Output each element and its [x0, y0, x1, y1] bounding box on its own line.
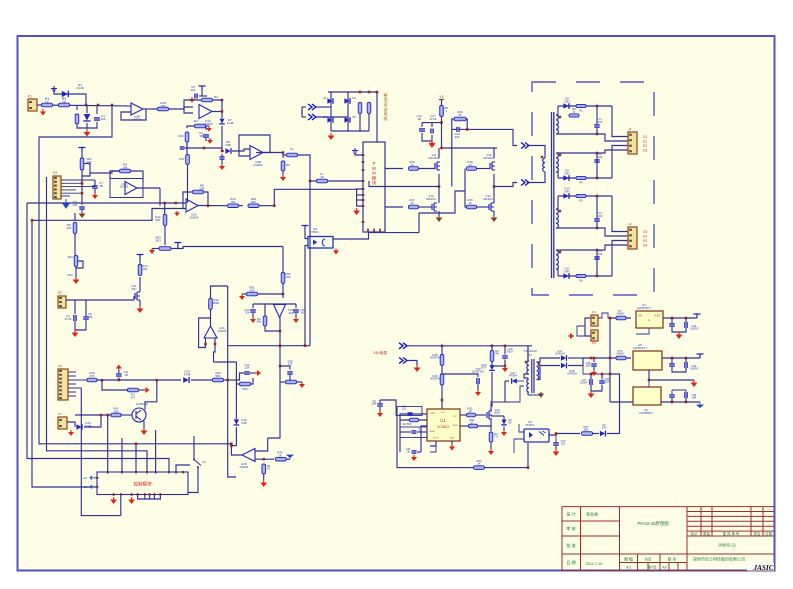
wire R22 down	[282, 171, 284, 175]
wire c32 up	[685, 318, 687, 322]
power arrow C11	[219, 164, 225, 170]
wire D16 down	[231, 427, 236, 446]
svg-text:签名: 签名	[754, 531, 761, 536]
wire bridge top rail	[328, 91, 377, 93]
label C28	[580, 378, 588, 385]
svg-text:10: 10	[469, 409, 472, 413]
svg-text:1B: 1B	[124, 373, 128, 377]
capacitor C21	[116, 374, 122, 376]
label R30	[213, 298, 220, 305]
junction sec out	[590, 357, 593, 360]
wire D10 cell cap stub2	[596, 222, 598, 229]
wire bridge out down	[376, 92, 378, 142]
title block bottom rows	[620, 562, 688, 564]
label R19	[457, 110, 463, 117]
power bar U5	[302, 226, 309, 230]
wire V14 gate	[133, 296, 135, 300]
label R26	[285, 272, 291, 279]
svg-text:R6: R6	[579, 279, 583, 283]
junction U2D out	[230, 443, 233, 446]
svg-text:J2: J2	[628, 222, 632, 226]
wire R47 up	[491, 346, 493, 351]
wire VR3 left	[152, 248, 159, 250]
wire D8 cell rail	[558, 105, 612, 107]
off-page chevron OUT1	[521, 143, 529, 149]
svg-text:GND: GND	[450, 438, 455, 440]
wire U3C out	[198, 205, 228, 207]
svg-text:RT/CT: RT/CT	[433, 438, 440, 440]
wire snub cap right	[459, 128, 467, 130]
wire u1 out	[460, 414, 466, 416]
text genggai	[723, 531, 740, 536]
junction u6 out	[555, 432, 558, 435]
label U6	[526, 420, 535, 427]
wire u1 vref loop	[421, 426, 427, 452]
wire top output run	[467, 129, 517, 145]
resistor R2b	[569, 114, 579, 117]
wire U2C in2	[214, 338, 216, 362]
wire P2 out	[66, 299, 85, 301]
label R6	[66, 223, 71, 230]
label U3A	[120, 182, 129, 189]
label R45	[430, 353, 440, 360]
junction left loop	[31, 219, 34, 222]
wire R8 out	[204, 192, 209, 206]
op-amp U2D	[242, 449, 255, 462]
wire left bus y203	[27, 202, 186, 204]
wire U3A out bend	[159, 188, 161, 206]
wire far left	[379, 400, 381, 403]
wire cap c13 dn	[252, 313, 254, 317]
pin arrows control left	[90, 476, 96, 489]
svg-text:D5: D5	[352, 115, 356, 119]
junction bridge out	[376, 91, 379, 94]
label D3	[352, 96, 356, 100]
label S1	[202, 460, 206, 464]
IC U9 LM7805	[633, 387, 661, 405]
wire R29 right	[224, 379, 237, 381]
junction c30	[593, 357, 596, 360]
transformer T2 core	[532, 359, 534, 393]
box left u1	[396, 407, 422, 416]
junction base a	[100, 414, 103, 417]
wire C7 top	[94, 180, 96, 186]
net label G3	[643, 230, 647, 234]
net label E2	[643, 144, 647, 148]
text ban ben	[668, 557, 677, 562]
power arrow z3	[501, 430, 507, 436]
junction rail c	[504, 345, 507, 348]
svg-text:LM324: LM324	[218, 329, 227, 333]
label C4 cell	[598, 249, 603, 256]
junction x280 y345	[279, 344, 282, 347]
polarity dot t2b	[538, 363, 541, 366]
wire VR4 wiper	[206, 125, 209, 127]
label R10	[230, 197, 236, 204]
svg-text:4148: 4148	[227, 121, 234, 125]
resistor R2	[202, 98, 213, 102]
svg-text:47K: 47K	[249, 288, 254, 292]
junction c14 top	[279, 365, 282, 368]
label U1	[440, 418, 446, 423]
svg-text:审 核: 审 核	[566, 525, 576, 532]
junction row380	[226, 379, 229, 382]
wire snub to rail	[451, 129, 453, 186]
svg-text:1K: 1K	[267, 467, 270, 471]
wire stub R5 down	[76, 105, 78, 110]
svg-text:56K: 56K	[257, 320, 262, 324]
svg-text:103: 103	[598, 252, 603, 256]
resistor R29g	[467, 205, 477, 209]
potentiometer VR1	[80, 158, 84, 170]
label C30	[586, 361, 591, 368]
wire c23 loop	[400, 414, 404, 420]
power arrow c26a	[377, 411, 383, 417]
polarity dot W3	[559, 210, 562, 213]
label P6	[592, 341, 596, 345]
wire pwm pins bracket	[357, 189, 363, 206]
wire u6 right	[549, 434, 580, 436]
wire R8 in	[183, 192, 193, 209]
wire R31b branch	[102, 380, 128, 390]
wire return rail	[369, 232, 420, 234]
wire bottom tie A	[77, 122, 97, 128]
wire vfb col	[399, 420, 401, 452]
wire D13 right	[84, 415, 101, 427]
label C25	[406, 447, 411, 454]
wire D11 cell lead B	[556, 249, 597, 251]
transformer T2 primary b	[527, 379, 529, 392]
resistor R33	[240, 382, 251, 386]
text date val	[586, 562, 603, 566]
svg-text:0603: 0603	[494, 411, 500, 415]
label diode D8 cell	[564, 97, 569, 104]
svg-text:10K: 10K	[285, 275, 290, 279]
wire cap c13 stub	[252, 304, 254, 308]
svg-text:OUT: OUT	[453, 416, 458, 418]
svg-text:第7页: 第7页	[647, 565, 657, 570]
junction rail a	[441, 345, 444, 348]
wire left bus 1	[39, 105, 231, 444]
junction d16 out	[230, 444, 233, 447]
label C27	[561, 439, 566, 446]
wire caps bottom	[359, 114, 361, 132]
label P3	[53, 171, 57, 175]
svg-text:103: 103	[598, 120, 603, 124]
wire U5 vcc	[305, 230, 308, 239]
wire t2 prim bot	[527, 392, 529, 395]
label C23	[402, 404, 407, 411]
svg-text:4148: 4148	[184, 372, 191, 376]
wire rail1	[610, 317, 631, 319]
svg-text:IRF9Z24: IRF9Z24	[484, 156, 495, 160]
junction R20 bus	[273, 204, 276, 207]
pin label rt	[433, 438, 440, 440]
resistor R42	[275, 457, 286, 461]
junction bridge R1	[359, 91, 362, 94]
label R31	[249, 286, 255, 293]
wire p5 up	[598, 313, 610, 318]
capacitor D8 cell	[594, 125, 600, 127]
junction c29	[601, 373, 604, 376]
label R22	[286, 163, 290, 167]
label D16	[241, 418, 247, 425]
power arrow 24v neg	[414, 365, 421, 372]
label R40	[89, 371, 95, 378]
wire D9 cell ret to conn	[597, 150, 628, 153]
svg-text:JASIC: JASIC	[753, 564, 774, 572]
wire u1 comp	[404, 413, 427, 415]
power arrow U3C	[174, 211, 180, 216]
wire R26 col	[282, 247, 284, 273]
resistor R55	[616, 316, 626, 320]
wire R30 up	[211, 286, 228, 299]
svg-text:1B: 1B	[300, 311, 303, 315]
junction VR1 b	[81, 192, 84, 195]
diode D13	[76, 424, 82, 430]
power arrow P7	[68, 430, 74, 436]
resistor R34	[286, 380, 297, 384]
svg-text:10K: 10K	[142, 267, 147, 271]
label C32	[689, 324, 699, 331]
wire D11 cell lead A	[556, 269, 558, 276]
wire vcc down	[201, 90, 203, 96]
wire tie to gnd A	[86, 123, 88, 128]
power bar VR1	[79, 148, 86, 152]
junction input rail 3	[111, 104, 114, 107]
resistor R56	[616, 356, 626, 360]
wire u8 out	[662, 357, 700, 359]
net label G1	[643, 135, 647, 139]
power arrow c25	[411, 455, 417, 461]
transformer T1 secondary W1	[556, 115, 558, 134]
junction caps top	[440, 121, 443, 124]
wire drain V11	[438, 148, 440, 158]
svg-text:10: 10	[468, 201, 472, 205]
wire pwm out1	[385, 168, 403, 170]
label R2b	[572, 107, 576, 114]
wire ctl loop big2	[81, 388, 121, 516]
svg-text:63LV: 63LV	[507, 350, 513, 354]
resistor R51	[467, 413, 476, 417]
resistor R5	[75, 114, 79, 124]
svg-text:P4: P4	[592, 310, 596, 314]
wire caps bottom tie	[422, 133, 432, 141]
label C21	[123, 370, 129, 377]
wire AC1 to bridge	[316, 106, 331, 108]
power arrow VR4	[206, 126, 212, 132]
power gnd ctl 1	[110, 497, 117, 504]
svg-text:6V: 6V	[508, 421, 511, 425]
label U3B	[253, 160, 263, 167]
capacitor C34	[685, 362, 687, 368]
capacitor C9	[195, 94, 197, 99]
resistor R52	[469, 424, 478, 428]
wire c13 right	[250, 372, 255, 374]
wire R46 down	[441, 385, 443, 409]
svg-text:V1: V1	[440, 95, 444, 99]
label C24	[418, 427, 422, 434]
wire R2 left to fb	[184, 100, 201, 113]
text qianming	[754, 531, 761, 536]
transformer T1 secondary W4	[556, 250, 558, 269]
rectifier diode D5	[344, 117, 350, 123]
wire P2 to V14	[85, 299, 134, 301]
wire S1 down	[188, 468, 198, 493]
transistor V11	[435, 162, 440, 170]
svg-text:47L: 47L	[131, 395, 136, 399]
label R26g	[409, 160, 415, 167]
resistor R47	[490, 351, 494, 362]
label P1	[28, 95, 32, 99]
wire snub left	[452, 119, 454, 129]
capacitor C33	[669, 364, 675, 366]
op-amp U3C	[186, 199, 198, 212]
pin text IN1	[83, 476, 88, 480]
resistor R3	[59, 103, 70, 107]
svg-text:7.6: 7.6	[494, 435, 498, 439]
label VR1	[86, 157, 92, 164]
wire p5 tap	[577, 326, 585, 336]
label P7	[58, 412, 62, 416]
op-amp U2A	[274, 305, 286, 318]
power arrow R31	[239, 294, 245, 300]
wire C11 stub	[221, 154, 223, 157]
capacitor C17	[431, 129, 433, 134]
connector P3	[53, 176, 61, 199]
op-amp U3B	[250, 146, 263, 160]
capacitor C26a	[377, 404, 383, 406]
transistor V13	[432, 203, 437, 211]
wire stub C1 down	[96, 105, 98, 114]
svg-text:10: 10	[468, 163, 472, 167]
wire c36 dn	[685, 398, 687, 402]
off-page chevron OUT2	[521, 180, 529, 186]
svg-text:IRFZ24: IRFZ24	[426, 197, 436, 201]
junction r49	[527, 466, 530, 469]
svg-text:D3: D3	[352, 96, 356, 100]
svg-text:G2: G2	[643, 149, 647, 153]
label T2	[523, 349, 537, 353]
title block left cols	[581, 507, 620, 571]
diode D12	[183, 377, 189, 383]
capacitor C31	[669, 324, 675, 326]
wire R10 R20	[239, 205, 244, 207]
label V12	[484, 153, 495, 160]
wire R47 dn	[491, 362, 493, 366]
wire VR2 down	[75, 267, 77, 278]
power port GND at P1	[40, 109, 46, 116]
resistor R22	[281, 161, 285, 171]
title block rev cols	[701, 507, 763, 536]
text PWM module	[372, 161, 377, 186]
wire pwm pin2	[357, 194, 363, 196]
wire y181 to R23	[310, 180, 317, 182]
wire D7 down	[221, 126, 223, 148]
text page	[647, 565, 657, 570]
wire c14 loop	[280, 366, 290, 370]
svg-text:1B: 1B	[417, 117, 421, 121]
wire totem mid L	[438, 174, 440, 203]
power bar R13	[137, 255, 144, 259]
resistor R2a	[263, 316, 267, 326]
pin label gnd	[450, 438, 455, 440]
wire v10 src dn	[490, 426, 492, 431]
resistor R24	[358, 103, 362, 114]
wire bridge bottom rail	[331, 130, 369, 132]
resistor R41	[111, 413, 121, 417]
wire C9 node	[199, 95, 207, 97]
title block outer	[562, 507, 774, 571]
transistor V12	[490, 162, 495, 170]
svg-text:04N: 04N	[564, 269, 569, 273]
svg-text:COMP: COMP	[429, 413, 436, 415]
wire ctl loop big	[120, 496, 122, 516]
wire sec out	[583, 357, 610, 359]
svg-text:IRF9Z24: IRF9Z24	[429, 156, 440, 160]
polarity dot t2a	[525, 361, 528, 364]
svg-text:04B: 04B	[242, 421, 247, 425]
resistor R46	[440, 374, 444, 385]
wire R31 left	[242, 293, 247, 295]
resistor R26g	[409, 167, 419, 171]
svg-text:56K: 56K	[155, 218, 160, 222]
wire r51 gate	[476, 414, 487, 416]
power arrow C13a	[250, 317, 256, 323]
junction opamp top	[282, 293, 285, 296]
svg-text:1B: 1B	[406, 450, 409, 454]
wire V1 down to R27	[441, 100, 443, 106]
junction u9 o2	[685, 401, 688, 404]
label V13	[426, 194, 436, 201]
polarity dot W1	[559, 116, 562, 119]
label R1	[45, 97, 50, 104]
wire c33 up	[671, 358, 673, 364]
wire U2B out	[143, 108, 150, 110]
resistor R29	[213, 378, 224, 382]
wire C7 down	[94, 189, 96, 193]
wire caps bottom2	[368, 114, 370, 132]
label R13	[142, 264, 148, 271]
svg-text:IRFZ24: IRFZ24	[483, 197, 493, 201]
wire r54 z2	[593, 433, 600, 435]
label resistor D8 cell	[579, 109, 583, 113]
resistor R17	[186, 155, 190, 165]
svg-text:56K: 56K	[215, 374, 220, 378]
wire R17 down	[187, 165, 189, 204]
wire c31 up	[671, 318, 673, 324]
svg-text:04N: 04N	[564, 99, 569, 103]
svg-text:E1: E1	[643, 140, 647, 144]
off-page chevron AC1	[308, 104, 316, 110]
wire u9 out	[661, 401, 700, 403]
rectifier diode D2	[327, 98, 333, 104]
wire D10 cell lead B	[556, 227, 597, 229]
wire C10 down	[205, 138, 207, 141]
label C36	[692, 393, 697, 400]
capacitor D11 cell	[594, 257, 600, 259]
connector P1	[28, 99, 37, 111]
junction c28	[590, 373, 593, 376]
capacitor C11	[220, 157, 225, 159]
svg-text:日期: 日期	[765, 531, 772, 536]
wire R12 up	[164, 203, 166, 215]
label R24	[0, 0, 1, 1]
wire cap c15 dn	[295, 313, 297, 317]
wire u1 isen	[460, 425, 468, 427]
wire reg rail vert	[609, 318, 611, 402]
svg-text:控制模块: 控制模块	[133, 481, 152, 488]
